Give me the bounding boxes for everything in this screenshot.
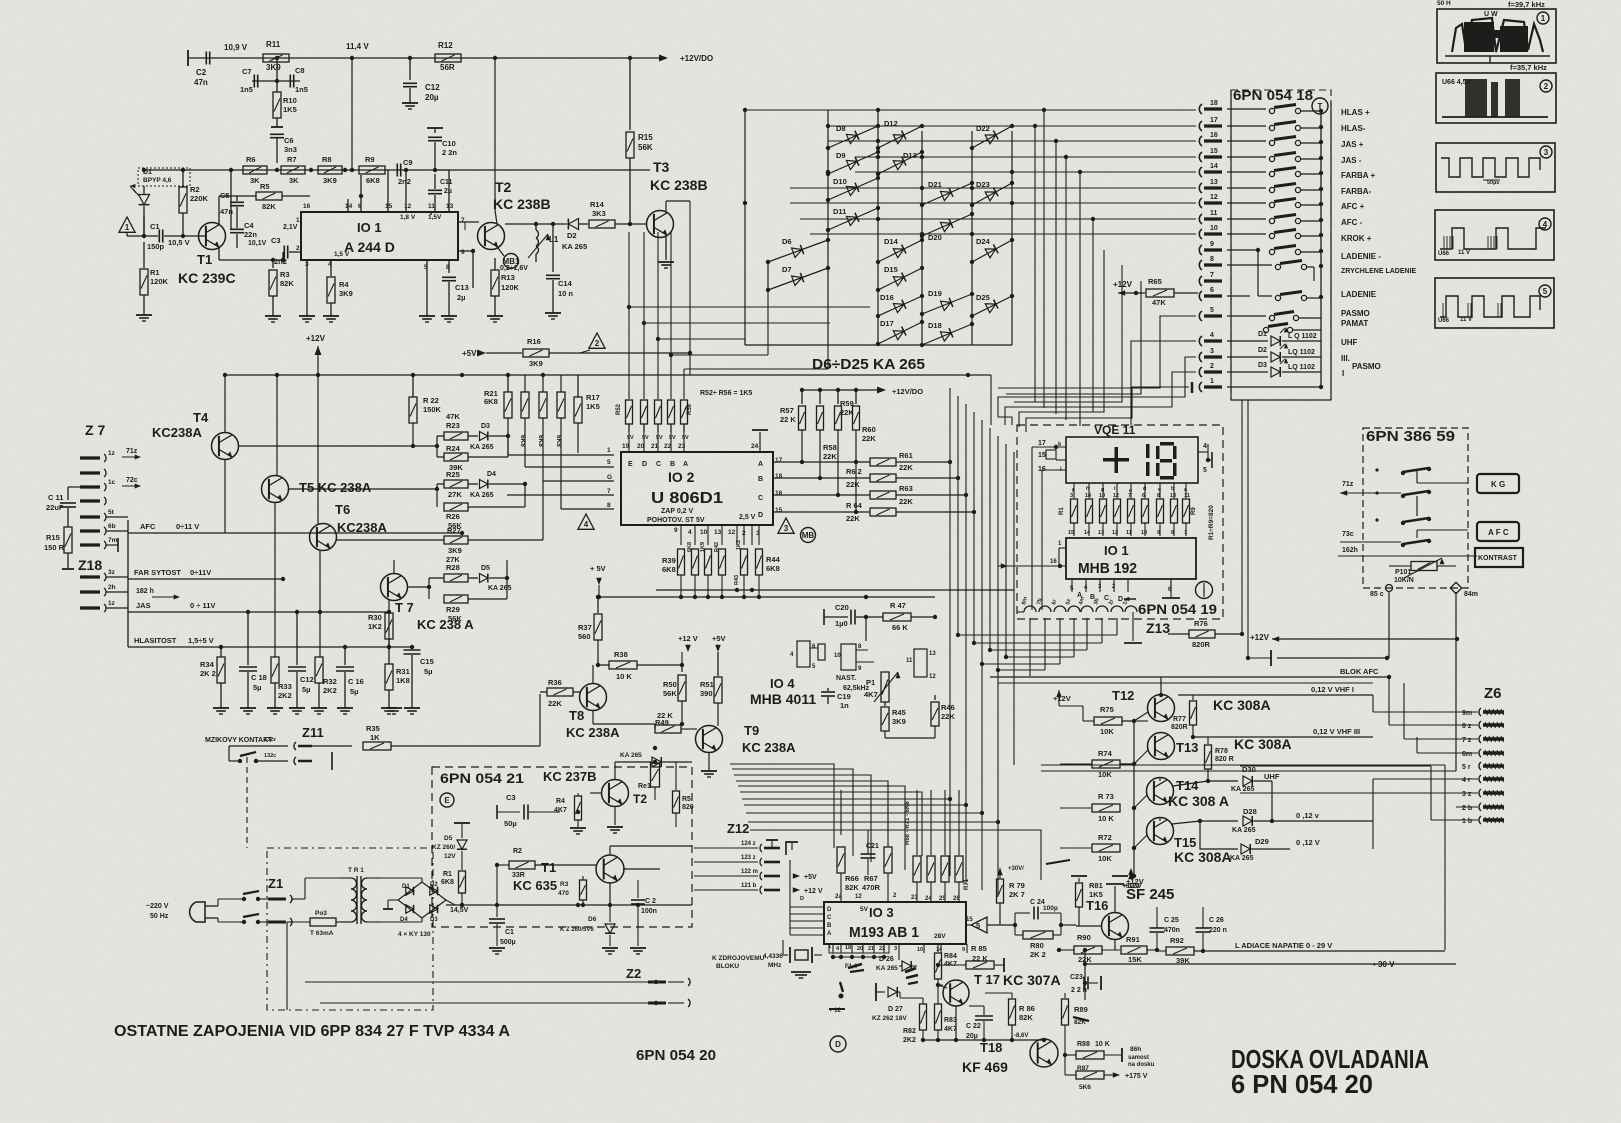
wire T15 collector: [1172, 819, 1238, 824]
svg-text:+12V: +12V: [1126, 877, 1144, 886]
svg-text:D19: D19: [928, 289, 942, 298]
wire row pin16: [828, 139, 1196, 143]
wire VHF I line: [1006, 685, 1373, 695]
IO4 gate1: [790, 641, 825, 670]
ground T9: [701, 771, 717, 777]
svg-text:17: 17: [1038, 440, 1046, 447]
transistor T4: [152, 375, 239, 533]
connector Z7 pin 7m: [80, 537, 118, 552]
svg-text:82K: 82K: [1074, 1019, 1086, 1026]
svg-text:KC 308A: KC 308A: [1174, 849, 1232, 865]
transistor T18: [962, 1039, 1085, 1075]
svg-text:12V: 12V: [444, 853, 456, 860]
svg-text:21: 21: [868, 946, 874, 952]
wire display drop verticals: [1030, 618, 1131, 676]
svg-text:+12 V: +12 V: [678, 634, 698, 643]
wire stair to IO3 f: [740, 792, 922, 856]
svg-text:9m: 9m: [1462, 710, 1472, 717]
svg-text:R87: R87: [1077, 1065, 1089, 1072]
svg-text:9: 9: [1210, 241, 1214, 248]
svg-text:C19: C19: [837, 692, 851, 701]
wire VHF III line: [1193, 727, 1373, 737]
svg-text:9: 9: [1157, 530, 1160, 536]
capacitor C1b: [489, 905, 516, 946]
svg-text:5µ: 5µ: [253, 683, 262, 692]
diode D18: [920, 321, 974, 347]
svg-text:R65: R65: [1148, 277, 1162, 286]
resistor R11: [263, 40, 289, 72]
svg-text:D12: D12: [884, 119, 898, 128]
svg-text:A: A: [758, 461, 763, 468]
svg-text:R34: R34: [200, 660, 215, 669]
svg-text:PAMAT: PAMAT: [1341, 319, 1368, 328]
svg-text:123 z: 123 z: [741, 855, 756, 861]
svg-text:D14: D14: [884, 237, 899, 246]
wire matrix rail v4: [921, 131, 923, 345]
resistor R39: [662, 549, 685, 597]
svg-text:3K9: 3K9: [339, 289, 353, 298]
connector Z6 pin 7 z: [1462, 735, 1504, 744]
resistor R90: [1057, 933, 1120, 964]
svg-text:10: 10: [834, 653, 841, 659]
svg-text:9: 9: [674, 527, 678, 534]
svg-text:R23: R23: [446, 421, 460, 430]
svg-text:3: 3: [784, 524, 789, 533]
ground R4: [323, 316, 339, 322]
svg-text:10 K: 10 K: [1098, 814, 1114, 823]
mains plug: [190, 899, 240, 922]
diode D29: [1200, 821, 1373, 862]
svg-text:KONTRAST: KONTRAST: [1478, 555, 1518, 562]
svg-text:1c: 1c: [108, 479, 116, 486]
svg-text:+ 5V: + 5V: [590, 564, 606, 573]
svg-text:E: E: [628, 461, 633, 468]
wire AFC line: [128, 522, 464, 535]
svg-text:1 b: 1 b: [1462, 818, 1472, 825]
capacitor C2: [194, 43, 248, 87]
wire conn pin1: [1026, 387, 1189, 432]
svg-text:C1: C1: [150, 222, 160, 231]
transistor T12: [1112, 677, 1271, 722]
scribble plus12: [829, 1008, 845, 1014]
svg-text:7 z: 7 z: [1462, 737, 1472, 744]
resistor R18: [555, 375, 565, 495]
connector switch row 11: [1227, 215, 1321, 224]
ground R34: [213, 708, 229, 714]
svg-text:6: 6: [1210, 287, 1214, 294]
svg-text:FAR SYTOST: FAR SYTOST: [134, 568, 181, 577]
wire R47 down: [866, 617, 935, 641]
svg-text:MB: MB: [802, 531, 815, 540]
svg-text:56R: 56R: [440, 63, 455, 72]
svg-text:4: 4: [1203, 443, 1207, 450]
connector box dashes: [1231, 90, 1331, 400]
wire C25C26 top: [1157, 906, 1203, 908]
svg-text:10: 10: [1210, 225, 1218, 232]
ground R13: [487, 316, 503, 322]
resistor R74: [1060, 749, 1148, 779]
resistor R6: [243, 155, 267, 185]
svg-text:T5 KC 238A: T5 KC 238A: [299, 480, 372, 495]
svg-text:85 c: 85 c: [1370, 591, 1384, 598]
svg-text:3 z: 3 z: [1462, 791, 1472, 798]
transistor T5: [262, 375, 372, 579]
IO2 top pin numbers: [622, 443, 783, 514]
svg-text:L ADIACE NAPATIE 0 - 29 V: L ADIACE NAPATIE 0 - 29 V: [1235, 941, 1332, 950]
diode D12: [876, 119, 924, 150]
svg-text:Z 7: Z 7: [85, 422, 105, 438]
svg-text:U W: U W: [1484, 11, 1498, 18]
svg-text:12: 12: [1113, 493, 1119, 499]
connector Z6 pin 8 z: [1462, 721, 1504, 730]
svg-text:82K: 82K: [1019, 1013, 1033, 1022]
transistor T2: [478, 179, 551, 250]
svg-text:4K7: 4K7: [554, 807, 567, 814]
capacitor C3b: [497, 793, 560, 828]
svg-text:R42: R42: [714, 542, 720, 552]
connector pin 1: [1199, 378, 1222, 392]
label 6PN 054 20 small: [636, 1047, 716, 1064]
connector labels: [1341, 108, 1417, 378]
resistor R66: [837, 790, 859, 901]
svg-text:120K: 120K: [150, 277, 169, 286]
svg-text:22K: 22K: [823, 452, 837, 461]
wire conn pin4: [1131, 341, 1196, 425]
svg-text:samost: samost: [1128, 1055, 1149, 1061]
wire row pin14: [826, 170, 1196, 174]
svg-text:5V: 5V: [682, 435, 689, 441]
svg-text:Z11: Z11: [302, 725, 324, 740]
transistor T17: [938, 970, 1000, 1006]
svg-text:162h: 162h: [1342, 547, 1358, 554]
resistor R73: [1060, 792, 1136, 823]
svg-text:D2: D2: [1258, 347, 1267, 354]
svg-text:C 2: C 2: [645, 898, 656, 905]
resistor R20: [519, 375, 543, 467]
wire conn pin5: [998, 316, 1196, 388]
svg-text:R44: R44: [766, 555, 781, 564]
svg-text:2µ: 2µ: [457, 293, 466, 302]
svg-text:15: 15: [1210, 148, 1218, 155]
svg-text:R63: R63: [899, 484, 913, 493]
svg-text:8: 8: [1171, 530, 1174, 536]
svg-text:JAS -: JAS -: [1341, 156, 1362, 165]
svg-text:10,5 V: 10,5 V: [168, 238, 190, 247]
svg-text:12: 12: [404, 203, 412, 210]
diode D22: [970, 124, 1014, 150]
svg-text:4: 4: [688, 529, 692, 536]
connector Z6 pin 5 r: [1462, 762, 1504, 771]
wire matrix rail v3: [877, 110, 879, 345]
diode D27: [872, 983, 907, 1022]
wire row pin11: [935, 218, 1196, 220]
wire IO1 pin7 to T2: [458, 222, 479, 230]
svg-text:D17: D17: [880, 319, 894, 328]
svg-text:R38: R38: [614, 650, 628, 659]
svg-text:KC 308A: KC 308A: [1234, 736, 1292, 752]
svg-text:6b: 6b: [108, 523, 116, 530]
connector Z6 label: [1484, 685, 1502, 702]
svg-text:3: 3: [894, 946, 897, 952]
wire Z2 lines: [287, 899, 700, 1010]
display dashed box: [1017, 425, 1223, 619]
svg-text:IO 3: IO 3: [869, 905, 894, 920]
svg-text:8 z: 8 z: [1462, 723, 1472, 730]
svg-text:3K9: 3K9: [448, 546, 462, 555]
wire bus y590: [656, 588, 1014, 592]
display humps: [1017, 596, 1137, 612]
svg-text:820R: 820R: [1192, 640, 1211, 649]
IO1 box: [301, 212, 458, 260]
svg-text:KC 239C: KC 239C: [178, 270, 236, 286]
resistor R3: [269, 258, 294, 316]
Z11 dashed drop: [246, 757, 248, 848]
svg-text:5V: 5V: [656, 435, 663, 441]
svg-text:AFC: AFC: [140, 522, 156, 531]
wire T1b collector: [610, 762, 615, 855]
IO3 box: [824, 902, 966, 944]
svg-text:R89: R89: [1074, 1005, 1088, 1014]
connector 6PN 054 18 box: [1231, 90, 1331, 400]
svg-text:13: 13: [714, 529, 722, 536]
wire IO2 D: [773, 510, 870, 514]
diode D25: [970, 293, 1014, 318]
svg-text:50 H: 50 H: [1437, 0, 1451, 7]
svg-text:14: 14: [1085, 493, 1092, 499]
label 14,5V: [450, 907, 469, 914]
svg-text:C4: C4: [244, 221, 254, 230]
svg-text:R10: R10: [283, 96, 297, 105]
resistors R52-R56: [616, 390, 752, 452]
svg-text:R1: R1: [443, 871, 452, 878]
svg-text:12: 12: [1112, 530, 1118, 536]
svg-text:PASMO: PASMO: [1352, 362, 1381, 371]
svg-text:+12V/DO: +12V/DO: [680, 54, 713, 63]
svg-text:86h: 86h: [1130, 1046, 1141, 1053]
wire D5 to IO2 pin7: [507, 495, 614, 578]
svg-text:3K9: 3K9: [892, 717, 906, 726]
svg-text:6PN 054 21: 6PN 054 21: [440, 770, 524, 786]
resistor R25: [437, 470, 468, 507]
svg-text:KA 265: KA 265: [620, 752, 642, 759]
svg-text:15: 15: [1068, 530, 1074, 536]
svg-text:22 K: 22 K: [972, 954, 988, 963]
svg-text:C3: C3: [506, 793, 516, 802]
resistor R31: [385, 645, 410, 708]
svg-text:R71: R71: [964, 878, 970, 890]
svg-text:D9: D9: [836, 151, 846, 160]
connector Z7 pin 1c: [80, 477, 141, 491]
connector Z11: [205, 725, 332, 770]
svg-text:D11: D11: [833, 207, 846, 216]
svg-text:82K: 82K: [280, 279, 294, 288]
svg-text:B: B: [827, 923, 832, 929]
svg-text:R57: R57: [780, 406, 794, 415]
svg-text:15: 15: [1038, 452, 1046, 459]
wire IO2 A: [773, 460, 858, 464]
svg-text:4 r: 4 r: [1462, 777, 1471, 784]
svg-text:PASMO: PASMO: [1341, 309, 1370, 318]
connector Z7 label: [85, 422, 105, 438]
svg-text:3: 3: [1210, 348, 1214, 355]
svg-text:3K: 3K: [289, 176, 299, 185]
capacitor C20: [824, 603, 868, 628]
psu dashed box: [432, 767, 692, 927]
resistor R15a: [626, 58, 653, 224]
MHB192 bottom pins: [1070, 579, 1172, 603]
wire R55 feeder: [669, 232, 768, 399]
capacitor C26: [1196, 907, 1227, 950]
wire row pin17: [853, 126, 1196, 130]
capacitor C11: [46, 487, 80, 524]
connector pin 13: [1199, 179, 1222, 193]
connector Z7 pin 501: [80, 497, 106, 505]
svg-text:K ZDROJOVEMU: K ZDROJOVEMU: [712, 955, 765, 962]
wire bridge out: [446, 893, 497, 907]
capacitor C4: [230, 221, 257, 248]
svg-text:4K7: 4K7: [864, 690, 878, 699]
diode D24: [970, 237, 1014, 264]
photodiode D1: [130, 168, 190, 236]
svg-text:1n5: 1n5: [295, 85, 308, 94]
svg-text:820: 820: [682, 804, 694, 811]
wire stair to IO3 a: [730, 764, 834, 848]
callout triangle 2: [580, 333, 605, 353]
svg-text:22: 22: [879, 946, 885, 952]
svg-text:10K: 10K: [1098, 854, 1112, 863]
diode D11: [826, 206, 880, 232]
svg-text:D 27: D 27: [888, 1006, 903, 1013]
svg-text:BLOK AFC: BLOK AFC: [1340, 667, 1379, 676]
wire IO4 bottom: [885, 738, 935, 745]
svg-text:16: 16: [775, 490, 783, 497]
svg-text:R 73: R 73: [1098, 792, 1114, 801]
svg-text:+5V: +5V: [462, 349, 477, 358]
connector Z18 label: [78, 557, 102, 573]
resistor R26: [444, 484, 525, 530]
svg-text:IO 2: IO 2: [668, 469, 695, 485]
svg-text:+5V: +5V: [804, 874, 817, 881]
svg-text:2K2: 2K2: [323, 686, 337, 695]
svg-text:KC 635: KC 635: [513, 878, 557, 893]
svg-text:R8: R8: [322, 155, 332, 164]
svg-text:T3: T3: [653, 159, 670, 175]
IO2 pin24 stub: [752, 430, 768, 452]
wire T7 base row: [407, 585, 431, 589]
svg-text:na dosku: na dosku: [1128, 1062, 1155, 1068]
svg-text:150 R: 150 R: [44, 543, 65, 552]
svg-text:R2: R2: [513, 848, 522, 855]
svg-text:18: 18: [1210, 100, 1218, 107]
waveform box 2: [1436, 73, 1556, 123]
svg-text:1,5 V: 1,5 V: [334, 251, 350, 258]
svg-text:820R: 820R: [1171, 724, 1188, 731]
resistor R14: [589, 200, 647, 228]
ground C18: [240, 708, 256, 714]
svg-text:Z2: Z2: [626, 966, 641, 981]
svg-text:C 22: C 22: [966, 1023, 981, 1030]
wire R53 feeder: [642, 232, 830, 399]
connector Z7 pin 5t: [80, 509, 128, 533]
svg-text:14: 14: [936, 947, 943, 953]
wire IO2 C: [773, 493, 870, 497]
svg-text:MHB 4011: MHB 4011: [750, 691, 816, 707]
connector Z18 pin 3z: [80, 569, 128, 581]
svg-text:150K: 150K: [423, 405, 442, 414]
svg-text:50µs: 50µs: [1487, 180, 1499, 186]
diode D8: [826, 124, 880, 150]
svg-text:R 85: R 85: [971, 944, 987, 953]
wire matrix rail v1: [744, 110, 746, 345]
svg-text:BLOKU: BLOKU: [716, 963, 739, 970]
wire 30V line: [1083, 948, 1456, 983]
wire stair to IO3 k: [750, 830, 1041, 880]
connector switch row 10: [1227, 230, 1321, 239]
svg-text:0÷11 V: 0÷11 V: [176, 522, 199, 531]
callout triangle 4: [578, 514, 594, 529]
transistor T8: [566, 665, 655, 740]
svg-text:D22: D22: [976, 124, 990, 133]
resistor R16: [523, 337, 690, 368]
resistor R92: [1157, 936, 1445, 965]
svg-text:R25: R25: [446, 470, 460, 479]
svg-text:124 z: 124 z: [741, 841, 756, 847]
svg-text:10: 10: [1141, 530, 1147, 536]
resistor R46: [931, 695, 955, 738]
svg-text:T6: T6: [335, 502, 350, 517]
svg-text:5µ: 5µ: [424, 667, 433, 676]
connector switch row 17: [1227, 122, 1321, 131]
svg-text:1: 1: [828, 944, 831, 950]
wire R52 feeder: [627, 232, 870, 399]
capacitor C18: [239, 610, 267, 708]
mains contacts: [240, 891, 268, 924]
wire conn drop v5: [1078, 170, 1082, 426]
svg-text:14: 14: [1084, 530, 1091, 536]
svg-text:R83: R83: [944, 1017, 957, 1024]
svg-text:MHz: MHz: [768, 962, 782, 969]
svg-text:13: 13: [446, 203, 454, 210]
resistor R79: [997, 860, 1071, 925]
resistor R10: [273, 92, 297, 127]
svg-text:D25: D25: [976, 293, 990, 302]
transistor T1b: [596, 846, 692, 905]
resistor R63: [870, 484, 968, 506]
connector switch row 13: [1227, 184, 1321, 193]
resistor R4: [327, 277, 353, 316]
svg-text:R66: R66: [845, 874, 859, 883]
svg-text:11: 11: [1184, 493, 1190, 499]
svg-text:KA 265: KA 265: [562, 242, 587, 251]
svg-text:R36: R36: [548, 678, 562, 687]
label 6PN 054 19: [1138, 601, 1217, 617]
svg-text:D15: D15: [884, 265, 898, 274]
waveform box 5: [1435, 278, 1554, 328]
svg-text:10K/N: 10K/N: [1394, 577, 1414, 584]
connector pin 6: [1199, 287, 1222, 301]
svg-text:T15: T15: [1174, 835, 1196, 850]
box KONTRAST: [1475, 548, 1523, 567]
svg-text:1: 1: [1210, 378, 1214, 385]
svg-text:2,5 V: 2,5 V: [739, 514, 756, 521]
svg-text:R88: R88: [1077, 1041, 1090, 1048]
capacitor C14: [546, 222, 573, 313]
svg-text:R82: R82: [903, 1028, 916, 1035]
svg-text:50 Hz: 50 Hz: [150, 913, 169, 920]
resistor R61: [857, 451, 952, 472]
svg-text:0 ÷ 11V: 0 ÷ 11V: [190, 601, 215, 610]
svg-text:T1: T1: [541, 860, 556, 875]
